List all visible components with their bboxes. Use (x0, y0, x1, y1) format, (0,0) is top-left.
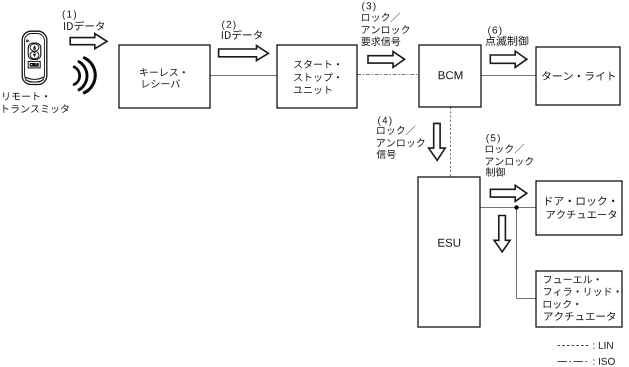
box U6 door lock actuator (ドア・ロック・アクチュエータ) (536, 181, 622, 235)
text box fuel-filler text line1: フューエル・ (544, 276, 599, 284)
text box keyless-receiver text line2: レシーバ (143, 79, 180, 88)
box U4 turn light (ターン・ライト) (536, 47, 620, 105)
legend LIN dashed line sample (558, 345, 590, 347)
wire BCM to turn light (solid) (481, 75, 536, 77)
box ESU text (438, 239, 460, 247)
text box start-stop-unit text line1: スタート・ (294, 60, 339, 69)
text label (3) line3: 要求信号 (361, 37, 400, 46)
text box fuel-filler text line2: フィラ・リッド・ (544, 288, 619, 297)
text label (5) line3: 制御 (486, 167, 505, 176)
wire start-stop unit to BCM (ISO dash-dot) (357, 74, 419, 76)
text label remote-transmitter line1: リモート・ (3, 92, 47, 100)
arrow (1) ID data, remote to receiver (70, 34, 107, 49)
text label remote-transmitter line2: トランスミッタ (3, 104, 68, 113)
box U3 BCM (419, 45, 481, 107)
text label (3) line2: アンロック (362, 25, 410, 34)
text label (5) line2: アンロック (486, 157, 534, 166)
junction dot on ESU output wire (514, 205, 518, 209)
wire junction to fuel filler box vertical (516, 207, 518, 299)
legend LIN text (593, 342, 612, 349)
text label (1) ID data: IDデータ (64, 21, 104, 31)
text box keyless-receiver text line1: キーレス・ (140, 68, 185, 76)
label (1) number (63, 10, 76, 19)
label (2) number (222, 21, 235, 30)
box BCM text (439, 71, 463, 79)
text label (2) ID data: IDデータ (222, 30, 262, 40)
box U7 fuel filler lid lock actuator (フューエル・フィラ・リッド・ロック・アクチュエータ) (536, 271, 622, 327)
wire ESU to door lock actuator (solid) (480, 207, 536, 209)
text box door-lock-actuator text line2: アクチュエータ (547, 210, 617, 219)
box U2 start-stop unit (スタート・ストップ・ユニット) (277, 45, 357, 108)
label (3) number (362, 2, 375, 11)
radio waves from remote transmitter (74, 58, 95, 93)
text label (5) line1: ロック／ (486, 144, 524, 153)
wire junction to fuel filler box horizontal (516, 298, 536, 300)
box U5 ESU (418, 177, 480, 327)
label (4) number (378, 117, 391, 126)
text box fuel-filler text line3: ロック・ (544, 300, 579, 309)
text label (4) line1: ロック／ (377, 126, 415, 135)
text label (6) blink control: 点滅制御 (485, 36, 528, 46)
text box turn-light text: ターン・ライト (542, 71, 615, 80)
text label (4) line3: 信号 (377, 150, 396, 159)
arrow (3) lock/unlock request, unit to BCM (368, 52, 405, 68)
wire keyless receiver to start-stop unit (solid) (210, 75, 277, 77)
text box start-stop-unit text line3: ユニット (294, 86, 332, 94)
remote transmitter key fob icon (22, 31, 47, 84)
text box start-stop-unit text line2: ストップ・ (294, 73, 339, 82)
arrow (5) lock/unlock control, ESU to door lock actuator (490, 185, 526, 201)
arrow (4) lock/unlock signal, BCM down to ESU (429, 123, 446, 160)
text box fuel-filler text line4: アクチュエータ (544, 312, 615, 321)
legend ISO text (593, 358, 614, 365)
text label (3) line1: ロック／ (362, 13, 400, 22)
text box door-lock-actuator text line1: ドア・ロック・ (546, 196, 614, 206)
label (5) number (486, 134, 499, 143)
arrow (2) ID data, receiver to start-stop unit (219, 46, 269, 61)
arrow (6) blink control, BCM to turn light (490, 51, 527, 67)
legend ISO dash-dot line sample (558, 361, 589, 363)
wire BCM to ESU (LIN dashed) (450, 107, 452, 177)
arrow down from ESU output to fuel filler lid actuator (494, 216, 510, 252)
text label (4) line2: アンロック (377, 138, 425, 147)
box U1 keyless receiver (キーレス・レシーバ) (119, 45, 210, 108)
label (6) number (488, 26, 501, 35)
